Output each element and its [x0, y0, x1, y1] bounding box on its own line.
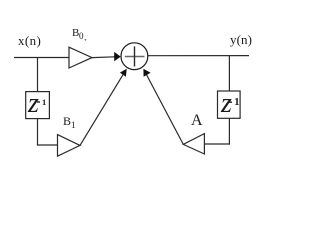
svg-text:1: 1	[234, 97, 239, 108]
stray dot after B0 label	[85, 39, 87, 41]
wire: elbow to A input	[204, 143, 230, 145]
wire: right delay output down	[228, 118, 230, 144]
gain B1 triangle	[58, 135, 81, 157]
node label y(n)	[230, 33, 252, 46]
left z^-1 exponent minus	[37, 101, 40, 103]
wire: A output diagonal up to summer with arrowhead	[147, 75, 184, 144]
plus sign inside summer	[125, 56, 145, 58]
delay block z^-1 right rectangle	[218, 91, 241, 118]
wire: input x(n) horizontal line	[14, 57, 69, 59]
svg-text:1: 1	[42, 97, 46, 107]
wire: branch from input node down to left delay	[37, 58, 39, 92]
gain A triangle	[183, 134, 204, 154]
value label A	[191, 113, 203, 129]
value label z^-1 right	[221, 90, 232, 118]
value label z^-1 left	[28, 90, 39, 118]
value label B1	[63, 115, 76, 130]
delay block z^-1 left rectangle	[26, 92, 50, 119]
gain B0 triangle	[69, 47, 92, 68]
wire: B0 output to summer with arrowhead	[92, 56, 115, 59]
wire: left delay output down	[37, 119, 39, 145]
right z^-1 exponent minus	[229, 101, 232, 103]
value label B0	[72, 28, 79, 39]
wire: branch from output node down to right delay	[228, 56, 230, 91]
wire: elbow to B1 input	[37, 144, 58, 146]
summing junction U1 circle	[121, 43, 148, 70]
wire: summer output to y(n)	[148, 55, 249, 57]
wire: B1 output diagonal up to summer with arrowhead	[80, 75, 123, 146]
node label x(n)	[18, 34, 41, 47]
